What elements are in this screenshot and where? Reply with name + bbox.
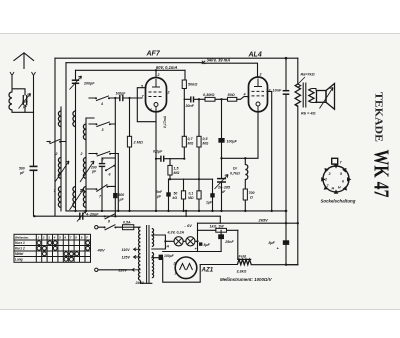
- marker measuring point x: [202, 61, 205, 64]
- wire lower caps columns: [169, 147, 213, 211]
- wire 60V line: [76, 69, 186, 71]
- svg-text:1kΩ, 1W: 1kΩ, 1W: [210, 224, 225, 228]
- wire AL4 cathode row: [222, 112, 259, 159]
- svg-text:Rb = 4Ω: Rb = 4Ω: [301, 112, 316, 116]
- wire 0M5 column top: [198, 99, 200, 136]
- wire screen divider column: [183, 99, 185, 158]
- svg-text:50kΩ: 50kΩ: [188, 83, 197, 87]
- coil bank L2b: [73, 111, 76, 127]
- svg-text:2: 2: [80, 152, 83, 156]
- wire bias bus: [35, 215, 221, 217]
- wire minus6 row: [185, 215, 187, 217]
- resistor R 0.7M: [182, 136, 186, 147]
- node bias bus joints: [114, 215, 116, 217]
- svg-text:WK 47: WK 47: [370, 150, 394, 198]
- wire HT dropper x286: [285, 58, 287, 265]
- resistor R 0.3M: [205, 97, 215, 101]
- capacitor C-ant 500pF variable: [19, 94, 31, 109]
- capacitor C 30nF: [191, 96, 194, 102]
- svg-text:AL4: AL4: [248, 51, 262, 58]
- capacitor C 1uF block: [210, 193, 214, 197]
- resistor R 50k: [182, 80, 186, 89]
- svg-text:Dr: Dr: [233, 167, 238, 171]
- transformer tap 125V: [134, 255, 141, 258]
- wire bias bus drop: [186, 211, 220, 223]
- wire left outer border: [54, 58, 56, 216]
- svg-text:2: 2: [79, 189, 82, 193]
- wire 100uF column: [221, 99, 223, 211]
- wire transformer bottom lead: [141, 281, 152, 283]
- svg-text:700: 700: [249, 191, 255, 195]
- node bus joints: [74, 210, 76, 212]
- node cathode rc: [155, 158, 157, 160]
- svg-text:3: 3: [175, 272, 177, 276]
- svg-text:Kurz 2: Kurz 2: [15, 247, 25, 251]
- svg-text:125V: 125V: [122, 256, 131, 260]
- wire 25n return row: [163, 251, 221, 253]
- capacitor C 500uF block: [113, 193, 117, 198]
- wire plus HT vertical: [197, 223, 199, 251]
- resistor R 0.1M lower: [197, 191, 201, 199]
- svg-text:kΩ: kΩ: [173, 196, 178, 200]
- switch S5: [97, 151, 110, 156]
- svg-text:µF: µF: [220, 190, 226, 194]
- svg-text:4,3V, 0,2A: 4,3V, 0,2A: [167, 230, 185, 234]
- svg-text:H: H: [338, 186, 341, 190]
- svg-text:2: 2: [42, 236, 45, 240]
- svg-text:8µF: 8µF: [269, 241, 276, 245]
- svg-text:MΩ: MΩ: [174, 171, 180, 175]
- wire bottom right return: [286, 264, 298, 266]
- node AF7 anode: [155, 69, 157, 71]
- coil L1 antenna: [9, 92, 12, 110]
- capacitor C3 200pF trimmer: [70, 76, 82, 90]
- coil bank L2c: [83, 124, 86, 140]
- svg-text:100µF: 100µF: [227, 140, 238, 144]
- svg-text:MΩ: MΩ: [203, 141, 209, 145]
- svg-text:340V, 39 mA: 340V, 39 mA: [207, 58, 231, 63]
- wire AF7 grid line from switch: [110, 97, 143, 99]
- resistor R 50k lower: [181, 191, 185, 199]
- coil bank L2a: [58, 111, 61, 127]
- wire 25n column: [220, 230, 222, 251]
- node feld joints: [285, 264, 287, 266]
- wire coil column b: [75, 111, 77, 211]
- svg-text:1µF: 1µF: [206, 201, 213, 205]
- coil bank L4c: [83, 186, 86, 207]
- wire AF7 anode stub: [155, 70, 157, 77]
- transformer T-out secondary: [309, 89, 316, 103]
- terminal mains lower: [95, 268, 98, 271]
- resistor R 100uF block electrolytic: [218, 138, 224, 143]
- svg-text:2: 2: [268, 89, 271, 93]
- svg-text:AF7: AF7: [146, 50, 161, 57]
- svg-text:TEKADE: TEKADE: [373, 92, 384, 142]
- wire 1k row: [198, 229, 238, 231]
- transformer T-mains secondary winding: [152, 229, 154, 278]
- table band switch: [14, 234, 91, 262]
- svg-text:MΩ: MΩ: [188, 196, 194, 200]
- svg-text:Kurz 1: Kurz 1: [15, 241, 25, 245]
- wire 200p lower drop: [102, 158, 115, 211]
- wire feld row: [200, 264, 298, 266]
- wire feld feed column: [237, 230, 239, 259]
- wire coil column c: [86, 118, 94, 211]
- svg-text:500: 500: [19, 167, 25, 171]
- transformer tap 110V: [134, 248, 141, 251]
- svg-text:2: 2: [55, 152, 58, 156]
- wire switch rows: [86, 98, 118, 189]
- node lamp joints: [164, 240, 166, 242]
- svg-text:100µF: 100µF: [164, 254, 175, 258]
- svg-text:4–20pF: 4–20pF: [85, 212, 99, 216]
- lamp La2: [186, 237, 195, 246]
- wire 265V line: [198, 222, 298, 224]
- node top rail AL4: [285, 57, 288, 60]
- wire antenna down line: [33, 77, 35, 217]
- switch S-mains upper: [105, 214, 116, 219]
- wire mid column x118: [117, 154, 119, 211]
- tube U3 AZ1: [175, 257, 197, 279]
- node 265V joints: [285, 222, 287, 224]
- svg-text:200pF: 200pF: [83, 82, 95, 86]
- wire mid column x115: [114, 98, 116, 216]
- capacitor C 4-20pF trimmer: [77, 211, 86, 222]
- switch S4: [96, 96, 109, 101]
- svg-text:2: 2: [157, 73, 160, 77]
- wire coil column a: [60, 107, 62, 211]
- tube U2 AL4: [249, 77, 268, 112]
- capacitor C 10nF: [283, 91, 290, 95]
- node switch contacts: [95, 97, 97, 99]
- wire top border +340V rail: [55, 57, 298, 59]
- node grid line joints: [114, 97, 116, 99]
- switch S6: [105, 165, 115, 172]
- tube U1 AF7: [146, 78, 167, 112]
- table contact circles: [37, 241, 90, 261]
- coil bank L3b with core arrow: [80, 157, 94, 182]
- svg-text:H: H: [332, 187, 335, 191]
- capacitor C 200pF lower: [99, 164, 105, 167]
- coil bank L4b with arrow: [70, 186, 84, 210]
- wire anode coupling line: [184, 97, 248, 100]
- resistor R 0.5M: [197, 136, 201, 147]
- resistor R 700ohm: [243, 189, 247, 200]
- wire trimmer 200p drop: [75, 70, 77, 110]
- socket diagram: [322, 158, 351, 193]
- svg-text:265V: 265V: [258, 217, 269, 222]
- svg-text:10nF: 10nF: [273, 89, 283, 93]
- svg-text:4: 4: [243, 93, 246, 97]
- wire Dr chain: [244, 158, 246, 211]
- svg-text:Meßinstrument: 1000Ω/V: Meßinstrument: 1000Ω/V: [220, 277, 273, 282]
- svg-text:2: 2: [167, 91, 170, 95]
- wire inner border left side: [65, 63, 67, 211]
- svg-text:240V: 240V: [135, 281, 145, 285]
- svg-text:AZ1: AZ1: [201, 267, 214, 274]
- svg-text:0,3MΩ: 0,3MΩ: [203, 93, 214, 97]
- svg-text:4: 4: [53, 236, 56, 240]
- svg-text:20–285: 20–285: [217, 186, 231, 190]
- svg-text:0,17mA: 0,17mA: [163, 115, 167, 128]
- capacitor C 3nF block: [166, 192, 170, 196]
- transformer tap 220V: [132, 268, 141, 271]
- coil Dr 0.7k: [245, 164, 248, 179]
- wire inner border to AL4 anode: [66, 63, 258, 77]
- transformer T-out core: [303, 83, 306, 108]
- transformer T-mains core: [147, 225, 149, 284]
- resistor R 1k 1W: [216, 228, 227, 232]
- svg-text:8µF: 8µF: [204, 243, 211, 247]
- capacitor C 8uF small block: [199, 242, 202, 245]
- svg-text:2: 2: [259, 73, 262, 77]
- resistor R 1.5M: [168, 165, 172, 175]
- svg-text:Wellenber.: Wellenber.: [15, 236, 29, 240]
- svg-text:Feld: Feld: [239, 255, 247, 259]
- wire heater box: [152, 258, 200, 283]
- capacitor C 20-285 variable: [215, 175, 229, 190]
- wire AL4 screen branch: [267, 91, 272, 210]
- wire speaker fieldline right: [297, 106, 299, 265]
- svg-text:220V: 220V: [118, 269, 128, 273]
- svg-text:500: 500: [22, 100, 28, 104]
- lamp La1: [174, 237, 183, 246]
- antenna: [10, 53, 36, 77]
- wire lamp loop: [152, 235, 198, 249]
- wire 1M5 column: [169, 159, 171, 180]
- svg-text:3: 3: [329, 172, 331, 176]
- svg-text:3: 3: [102, 128, 104, 132]
- svg-text:0,7kΩ: 0,7kΩ: [230, 172, 240, 176]
- svg-text:– 6V: – 6V: [184, 224, 192, 228]
- wire mains input upper: [98, 226, 137, 228]
- svg-text:4: 4: [100, 102, 103, 106]
- svg-text:2: 2: [173, 262, 176, 266]
- svg-text:3,3kΩ: 3,3kΩ: [237, 269, 247, 273]
- wire AF7 grid shield box: [137, 88, 156, 122]
- speaker LS: [317, 84, 335, 110]
- svg-text:110V: 110V: [122, 248, 131, 252]
- wire transformer primary feed: [297, 58, 299, 84]
- svg-text:Lang: Lang: [15, 258, 23, 262]
- svg-text:MΩ: MΩ: [188, 141, 194, 145]
- svg-text:60V, 0,1mA: 60V, 0,1mA: [156, 65, 178, 70]
- svg-text:30nF: 30nF: [186, 104, 195, 108]
- switch S7: [96, 184, 107, 191]
- svg-text:F: F: [86, 236, 88, 240]
- wire chassis bus: [66, 210, 286, 212]
- wire antenna coil loop: [12, 77, 34, 113]
- coil bank L4a: [58, 186, 61, 207]
- svg-text:Ra≈7kΩ: Ra≈7kΩ: [301, 73, 315, 77]
- capacitor C 100uF heater block: [159, 255, 163, 260]
- transformer T-mains primary winding: [137, 227, 140, 280]
- coil bank L3a with core arrow: [55, 157, 69, 182]
- wire cathode RC row: [156, 158, 184, 160]
- svg-text:0,5A: 0,5A: [123, 221, 131, 225]
- svg-text:50Ω: 50Ω: [228, 93, 235, 97]
- svg-text:Mittel: Mittel: [15, 252, 23, 256]
- capacitor C 100pF grid: [120, 95, 123, 101]
- wire 2M column: [129, 98, 131, 211]
- svg-text:Sockelschaltung: Sockelschaltung: [321, 199, 356, 204]
- svg-text:100pF: 100pF: [116, 92, 127, 96]
- svg-text:0,1µF: 0,1µF: [153, 150, 163, 154]
- node anode line joints: [198, 98, 200, 100]
- terminal mains upper: [95, 226, 98, 229]
- capacitor C 25nF block: [218, 234, 224, 239]
- svg-text:2: 2: [324, 178, 327, 182]
- resistor R 2M: [127, 136, 131, 147]
- capacitor C 0.1uF cathode: [161, 156, 164, 162]
- fuse F 0.5A: [123, 225, 134, 230]
- switch S1 left: [47, 139, 67, 144]
- switch S3: [96, 122, 110, 127]
- wire AF7 cathode column: [155, 112, 157, 211]
- node al4 cathode: [220, 157, 222, 159]
- transformer T-out primary: [295, 84, 301, 106]
- wire lower node row: [169, 178, 213, 180]
- svg-text:8: 8: [108, 220, 110, 224]
- wire mains input lower: [98, 269, 132, 271]
- resistor R 50ohm: [228, 97, 237, 101]
- wire 50k branch down: [183, 70, 186, 99]
- svg-text:2 MΩ: 2 MΩ: [133, 141, 143, 145]
- svg-text:40V: 40V: [97, 248, 105, 253]
- svg-text:25nF: 25nF: [224, 240, 234, 244]
- coil field winding Feld: [237, 259, 251, 264]
- svg-text:500: 500: [119, 193, 125, 197]
- svg-text:Ω: Ω: [249, 196, 253, 200]
- switch S-mains lower: [105, 225, 116, 230]
- capacitor C2 500pF: [30, 166, 38, 170]
- capacitor C 8uF electrolytic block: [283, 240, 289, 245]
